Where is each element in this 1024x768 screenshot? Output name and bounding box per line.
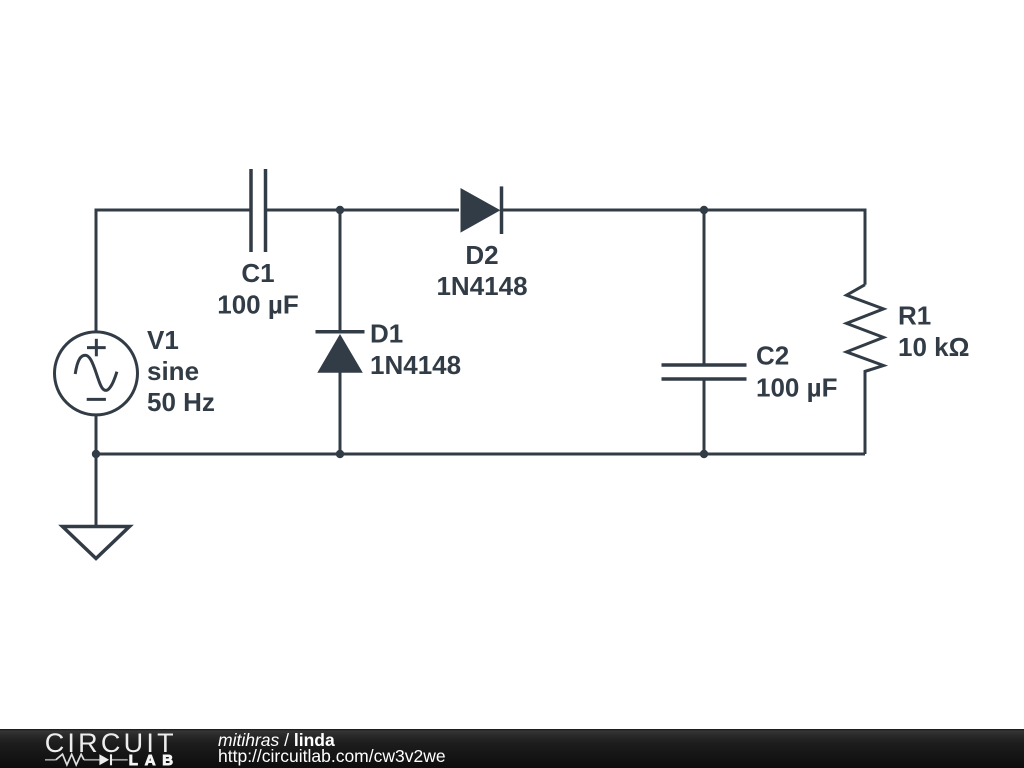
svg-text:sine: sine [147,356,199,386]
svg-text:D1: D1 [370,319,403,349]
svg-text:R1: R1 [898,301,931,331]
svg-text:100 µF: 100 µF [756,373,837,403]
svg-text:C1: C1 [241,258,274,288]
svg-text:50 Hz: 50 Hz [147,387,215,417]
svg-text:10 kΩ: 10 kΩ [898,332,969,362]
svg-text:1N4148: 1N4148 [370,350,461,380]
svg-text:1N4148: 1N4148 [436,271,527,301]
svg-text:100 µF: 100 µF [217,290,298,320]
svg-text:D2: D2 [465,240,498,270]
svg-text:V1: V1 [147,325,179,355]
svg-text:LAB: LAB [129,752,173,768]
svg-text:C2: C2 [756,341,789,371]
